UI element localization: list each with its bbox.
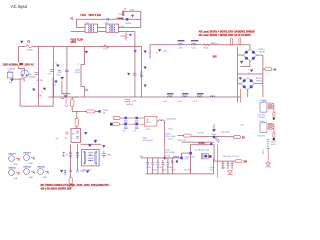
svg-text:LTV-817: LTV-817	[258, 117, 266, 119]
wire right drop x240	[240, 89, 242, 103]
wire choke out	[119, 27, 141, 29]
fuse F201	[71, 97, 74, 107]
ground GND12	[239, 77, 242, 80]
wire box top	[123, 11, 141, 27]
svg-text:CN8004: CN8004	[23, 166, 31, 169]
ground GND2	[20, 41, 23, 44]
wire selector mid	[38, 47, 40, 107]
ground GND8	[157, 49, 162, 54]
wire vertical x162 upper	[141, 96, 143, 98]
node dot N6	[125, 123, 127, 125]
connector CN3	[8, 168, 20, 181]
capacitor bank C517	[171, 158, 177, 174]
resistor R501	[231, 38, 233, 45]
capacitor C207	[134, 121, 139, 126]
ground GND21	[144, 67, 147, 70]
resistor R101	[119, 9, 135, 17]
resistor R506	[273, 112, 275, 117]
wire vertical x134	[134, 32, 136, 98]
svg-text:GND: GND	[14, 164, 19, 166]
wire R501 drop	[231, 44, 233, 46]
voltage selector warning red text	[3, 63, 35, 67]
wire box outline	[191, 145, 215, 174]
transistor Q510	[201, 153, 211, 159]
bridge rectifier BD501	[243, 49, 265, 61]
connector P501	[265, 68, 277, 72]
svg-text:PC501: PC501	[260, 100, 267, 102]
capacitor bank C514	[156, 158, 162, 174]
ground GND16 red	[227, 171, 232, 175]
wire bridge1 in	[237, 47, 239, 103]
node dot N1	[64, 95, 66, 97]
wire rail x66	[66, 47, 68, 98]
ground GND10	[240, 61, 243, 64]
svg-text:35V 470uF: 35V 470uF	[166, 136, 177, 138]
wire rail x53	[53, 47, 55, 98]
capacitor C211	[75, 89, 89, 99]
fuse F101 checkered	[116, 18, 123, 20]
node dot N4	[125, 117, 127, 119]
choke L101	[85, 22, 98, 32]
resistor R508	[268, 126, 272, 127]
svg-text:GBU8J: GBU8J	[259, 52, 265, 54]
wire bridge1 out	[257, 55, 263, 97]
connector CN511	[235, 160, 247, 164]
svg-text:AB a DE ABCD BZW01 51B: AB a DE ABCD BZW01 51B	[41, 187, 72, 190]
fuse F202	[72, 107, 99, 113]
wire sb rail2	[214, 160, 235, 162]
capacitor C802	[69, 167, 85, 173]
capacitor CX3	[34, 73, 39, 79]
capacitor CX2	[57, 71, 62, 77]
svg-text:5.5V 3A: 5.5V 3A	[197, 132, 205, 135]
resistor R503	[268, 103, 272, 104]
switch SW1	[7, 72, 13, 78]
capacitor bank C516	[166, 158, 172, 174]
transformer T801 primary resistor	[56, 138, 79, 177]
inductor L204	[163, 93, 174, 103]
wire EMI rail top	[150, 44, 250, 46]
capacitor bank C512	[146, 158, 152, 174]
ground GND14	[94, 140, 98, 143]
wire vertical x141	[141, 47, 143, 98]
connector CN202	[110, 123, 144, 126]
resistor R507	[268, 124, 272, 125]
node dot N8	[176, 160, 178, 162]
svg-text:+B: +B	[273, 69, 276, 72]
svg-text:GND: GND	[29, 163, 34, 165]
capacitor C101	[104, 18, 110, 25]
svg-text:SB: SB	[244, 161, 248, 164]
connector CN5	[37, 167, 49, 180]
svg-text:1M: 1M	[124, 9, 127, 11]
svg-text:250V 3.15A: 250V 3.15A	[89, 14, 102, 17]
wire PC502 right bus	[272, 124, 274, 132]
svg-text:VAR201: VAR201	[211, 42, 219, 45]
svg-text:AB Lead: BD501 = BD502 250V 3A: AB Lead: BD501 = BD502 250V 3A 25 3A BD5…	[199, 34, 252, 37]
ground GND17	[60, 170, 66, 176]
svg-text:PC502: PC502	[259, 121, 266, 123]
inductor L207	[157, 119, 177, 144]
fuse F203	[75, 111, 78, 128]
wire relay out	[81, 143, 102, 145]
svg-text:SLA. 4.5V TO 10V: SLA. 4.5V TO 10V	[223, 155, 240, 158]
svg-text:VCC2: VCC2	[168, 139, 174, 141]
resistor R510	[273, 132, 275, 137]
red mark left	[241, 124, 244, 126]
wire P501 link	[263, 68, 265, 70]
ground GND4	[56, 63, 60, 68]
resistor R203	[204, 44, 210, 49]
wire bridge2 box	[238, 73, 263, 75]
transistor Q502	[273, 138, 275, 140]
wire bottom rail	[146, 159, 214, 174]
svg-text:5V: 5V	[242, 137, 245, 140]
node junction J162	[163, 157, 166, 160]
wire left drop x217	[217, 145, 219, 178]
svg-text:CN8003: CN8003	[8, 168, 16, 170]
transistor Q501	[273, 118, 275, 120]
wire mid rail	[141, 157, 182, 159]
choke L102	[106, 24, 125, 32]
icon bracket	[63, 152, 68, 157]
svg-text:GND: GND	[43, 177, 48, 179]
svg-text:25V: 25V	[213, 56, 218, 59]
svg-text:R1 2W: R1 2W	[37, 80, 43, 82]
wire live drop	[18, 47, 20, 63]
svg-text:GND: GND	[29, 177, 34, 179]
svg-text:F101: F101	[81, 14, 87, 17]
svg-text:GBU8J: GBU8J	[256, 80, 262, 82]
connector CN509	[166, 132, 234, 138]
svg-text:5V 2A/12V 0.5A: 5V 2A/12V 0.5A	[195, 149, 210, 152]
node junction J-top	[126, 18, 128, 20]
connector CN1	[8, 154, 20, 167]
capacitor C521	[226, 161, 229, 169]
wire stub	[182, 152, 191, 154]
wire block rail2	[182, 141, 215, 143]
ground GND20	[144, 51, 152, 54]
ground GND5	[42, 88, 47, 94]
svg-text:35V 470uF: 35V 470uF	[165, 152, 176, 154]
ground GND11	[249, 70, 254, 76]
optocoupler PC502	[258, 121, 268, 137]
node square N13	[210, 143, 212, 145]
wire PC501 right bus	[272, 104, 274, 113]
node dot N3	[98, 110, 100, 112]
ground GND9	[32, 89, 35, 92]
node dot N5	[136, 117, 138, 119]
thermistor RT1	[103, 45, 110, 51]
node junction J181	[180, 157, 183, 160]
svg-text:C210 400V: C210 400V	[166, 119, 177, 121]
svg-text:115V AC/60Hz: 115V AC/60Hz	[3, 64, 20, 67]
svg-text:100 TB 100: 100 TB 100	[143, 140, 154, 142]
inductor L208	[210, 96, 215, 97]
ground GND3	[9, 79, 13, 84]
svg-text:CN8005: CN8005	[37, 167, 45, 169]
capacitor CY4 vertical label	[140, 70, 143, 77]
svg-text:AC Input: AC Input	[11, 4, 28, 9]
diode D510	[211, 125, 217, 136]
wire notch	[20, 79, 24, 82]
wire bridge1 bottom	[241, 61, 250, 66]
svg-text:CN8001: CN8001	[8, 154, 16, 156]
node square N12	[189, 152, 192, 155]
capacitor C205	[125, 100, 137, 105]
svg-text:PC17K1: PC17K1	[258, 135, 266, 137]
wire main top rail left	[32, 46, 142, 48]
node diamond N9	[212, 135, 215, 138]
connector CN2	[23, 153, 35, 166]
resistor R505	[268, 108, 272, 109]
wire top rail	[77, 18, 141, 20]
wire choke link	[98, 27, 106, 29]
ground GND23	[61, 77, 64, 80]
svg-text:MOV: MOV	[146, 122, 151, 124]
capacitor C520	[221, 161, 227, 169]
inductor L510	[174, 156, 179, 157]
ground GND19	[86, 171, 89, 174]
capacitor CY3	[127, 73, 136, 76]
inductor L206	[193, 93, 204, 103]
AC receptacle J1	[21, 70, 36, 78]
wire choke feed left	[77, 19, 85, 27]
resistor R102	[120, 32, 132, 41]
resistor R801	[69, 177, 73, 187]
wire primary drop	[81, 47, 85, 98]
wire selector box	[20, 78, 53, 107]
capacitor C209	[134, 127, 139, 132]
svg-text:AB Lead: BD501 = BD502 250V 3A: AB Lead: BD501 = BD502 250V 3A/BD501 504…	[199, 30, 256, 33]
relay K1	[61, 95, 69, 107]
connector CN4	[23, 166, 35, 180]
ground GND7	[134, 50, 137, 53]
svg-text:GND: GND	[14, 178, 19, 180]
svg-text:EGND: EGND	[126, 23, 132, 25]
varistor box RV201	[145, 117, 157, 132]
ground GND13	[84, 132, 87, 135]
svg-text:CN8002: CN8002	[23, 153, 31, 155]
capacitor bank C515	[161, 160, 167, 174]
ground GND18	[102, 145, 105, 148]
inductor L201	[178, 40, 185, 49]
capacitor C801	[102, 151, 112, 158]
capacitor C206	[123, 121, 128, 126]
resistor R509	[268, 128, 272, 129]
bridge rectifier BD502	[241, 78, 263, 90]
ground GND22	[144, 85, 147, 88]
svg-text:VCC1: VCC1	[168, 129, 174, 131]
svg-text:450V: 450V	[75, 72, 80, 74]
wire EMI box left	[149, 45, 151, 59]
fuse F1	[19, 41, 34, 52]
wire zener chain	[267, 149, 269, 163]
ground GND15 red	[266, 163, 271, 167]
svg-text:EG: EG	[9, 82, 12, 84]
main lower rail wire	[49, 96, 241, 98]
wire receptacle links	[19, 67, 25, 71]
resistor R504	[268, 105, 272, 106]
resistor R502	[239, 38, 241, 45]
capacitor CY1	[65, 70, 69, 72]
optocoupler PC501	[258, 100, 268, 119]
svg-text:C530 35V: C530 35V	[221, 132, 231, 134]
wire vcc drop x162	[164, 144, 166, 158]
inductor L202	[191, 40, 198, 49]
svg-text:T3.15A: T3.15A	[26, 49, 33, 52]
inductor L205	[178, 93, 189, 103]
wire choke bottom return	[71, 31, 85, 33]
zener ZD501	[267, 140, 277, 149]
svg-text:250V: 250V	[71, 41, 77, 44]
capacitor C522	[231, 161, 234, 169]
capacitor CX1	[48, 70, 54, 76]
svg-text:230V AC: 230V AC	[25, 64, 35, 67]
ground GND24	[54, 81, 58, 87]
node dot N7	[136, 123, 138, 125]
wire x61 drop	[62, 81, 71, 94]
capacitor bank C513	[151, 158, 157, 174]
connector CN201	[113, 117, 144, 120]
ground GND6	[85, 51, 88, 54]
relay K201	[65, 129, 81, 143]
transformer T801	[82, 145, 100, 172]
connector CN510	[234, 136, 246, 140]
capacitor C208	[123, 127, 128, 132]
ground GND1	[126, 15, 135, 25]
diode D511 diagonal	[215, 137, 220, 143]
